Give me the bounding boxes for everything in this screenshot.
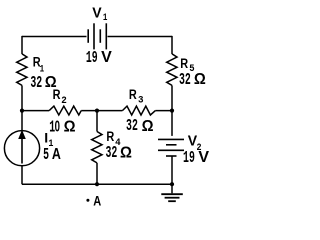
- wire right lower: [171, 157, 173, 194]
- svg-text:A: A: [93, 193, 101, 206]
- ground: [161, 194, 183, 201]
- wire top left: [22, 36, 87, 38]
- svg-text:32: 32: [179, 71, 191, 91]
- current source I1: [4, 131, 39, 166]
- node A marker: [86, 199, 89, 202]
- wire left upper: [21, 36, 23, 54]
- wire right upper: [171, 36, 173, 54]
- value 32 ohm of R3: [126, 116, 153, 136]
- svg-text:5: 5: [43, 145, 49, 165]
- svg-text:R: R: [129, 87, 137, 103]
- junction node center-middle: [95, 109, 99, 113]
- resistor R3: [122, 106, 155, 115]
- current source arrow: [18, 130, 26, 164]
- wire bottom: [22, 183, 172, 185]
- svg-text:A: A: [52, 145, 61, 163]
- svg-text:R: R: [106, 129, 114, 145]
- label R1: [33, 54, 45, 75]
- svg-text:32: 32: [30, 73, 42, 93]
- svg-text:Ω: Ω: [194, 71, 206, 89]
- value 5 A of I1: [43, 145, 61, 165]
- junction node right-bottom: [170, 182, 174, 186]
- label I1: [44, 130, 54, 150]
- resistor R1: [17, 54, 27, 86]
- svg-text:0: 0: [55, 117, 60, 135]
- svg-text:2: 2: [61, 95, 67, 107]
- svg-text:R: R: [53, 87, 61, 103]
- label R3: [129, 87, 144, 106]
- wire middle left: [22, 110, 49, 112]
- label V1: [92, 5, 108, 23]
- svg-text:Ω: Ω: [64, 118, 76, 136]
- svg-text:1: 1: [103, 11, 108, 24]
- wire R4 branch lower: [96, 163, 98, 184]
- svg-text:V: V: [92, 5, 102, 21]
- resistor R2: [49, 106, 81, 115]
- wire middle right: [155, 110, 172, 112]
- svg-text:19: 19: [183, 149, 195, 169]
- svg-text:R: R: [180, 56, 188, 72]
- wire right middle: [171, 85, 173, 135]
- wire top right: [108, 36, 173, 38]
- node A label: [93, 193, 101, 208]
- battery V2: [158, 139, 184, 156]
- svg-text:V: V: [101, 49, 112, 66]
- value 19 V of V1: [86, 48, 112, 68]
- value 10 ohm of R2: [49, 117, 75, 138]
- wire left lower: [21, 166, 23, 184]
- junction node right-middle: [170, 109, 174, 113]
- svg-text:I: I: [44, 130, 48, 146]
- label V2: [188, 134, 202, 154]
- resistor R5: [167, 54, 177, 86]
- wire left middle: [21, 85, 23, 130]
- svg-text:19: 19: [86, 48, 98, 68]
- value 32 ohm of R5: [179, 71, 206, 91]
- label R2: [53, 87, 67, 106]
- resistor R4: [92, 132, 102, 163]
- label R5: [180, 56, 194, 75]
- value 19 V of V2: [183, 149, 209, 169]
- wire R4 branch upper: [96, 111, 98, 132]
- wire middle center: [81, 110, 122, 112]
- value 32 ohm of R1: [30, 73, 56, 93]
- svg-text:32: 32: [126, 116, 138, 136]
- battery V1: [88, 23, 106, 49]
- junction node left-middle: [20, 109, 24, 113]
- junction node center-bottom: [95, 182, 99, 186]
- svg-text:3: 3: [138, 94, 144, 106]
- svg-text:V: V: [198, 149, 209, 166]
- value 32 ohm of R4: [105, 144, 131, 164]
- svg-text:32: 32: [105, 144, 117, 164]
- svg-text:Ω: Ω: [120, 144, 132, 162]
- svg-text:Ω: Ω: [142, 118, 154, 136]
- label R4: [106, 129, 120, 148]
